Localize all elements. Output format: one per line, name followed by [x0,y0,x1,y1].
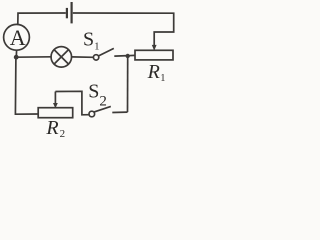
rheostat R2 body [38,108,72,118]
svg-text:1: 1 [94,41,99,52]
svg-text:A: A [10,25,26,50]
svg-text:R: R [45,117,58,138]
switch S1 pivot [93,55,98,60]
wire: ammeter bottom stub [15,50,17,57]
wire: node B down [127,56,129,112]
wire: S2 pivot up and over to R2 slider [55,91,89,115]
svg-text:2: 2 [99,94,107,110]
svg-text:S: S [83,29,94,51]
wire: bottom right corner to S2 contact [112,111,127,113]
switch S2 pivot [89,111,95,117]
svg-text:2: 2 [60,128,66,138]
lamp L [51,47,72,68]
battery long plate [70,2,72,23]
ammeter A [4,24,30,50]
wire: battery right, down to R1 slider [73,13,174,47]
wire: node A to lamp [16,56,51,58]
wire: ammeter top to battery [18,13,66,24]
node B junction dot [126,54,130,58]
battery short plate [66,8,68,18]
rheostat R1 body [135,50,173,60]
node A junction dot [14,55,19,60]
svg-text:1: 1 [160,73,165,84]
svg-text:S: S [88,81,99,103]
wire: lamp to S1 pivot [72,56,94,58]
switch S2 blade [94,106,111,112]
R1 slider arrowhead [152,45,157,51]
wire: S1 contact to R1 [114,54,135,57]
R2 slider arrowhead [54,92,56,105]
switch S1 blade [99,48,114,56]
svg-text:R: R [147,61,160,83]
wire: left rail down and to R2 [15,57,38,114]
